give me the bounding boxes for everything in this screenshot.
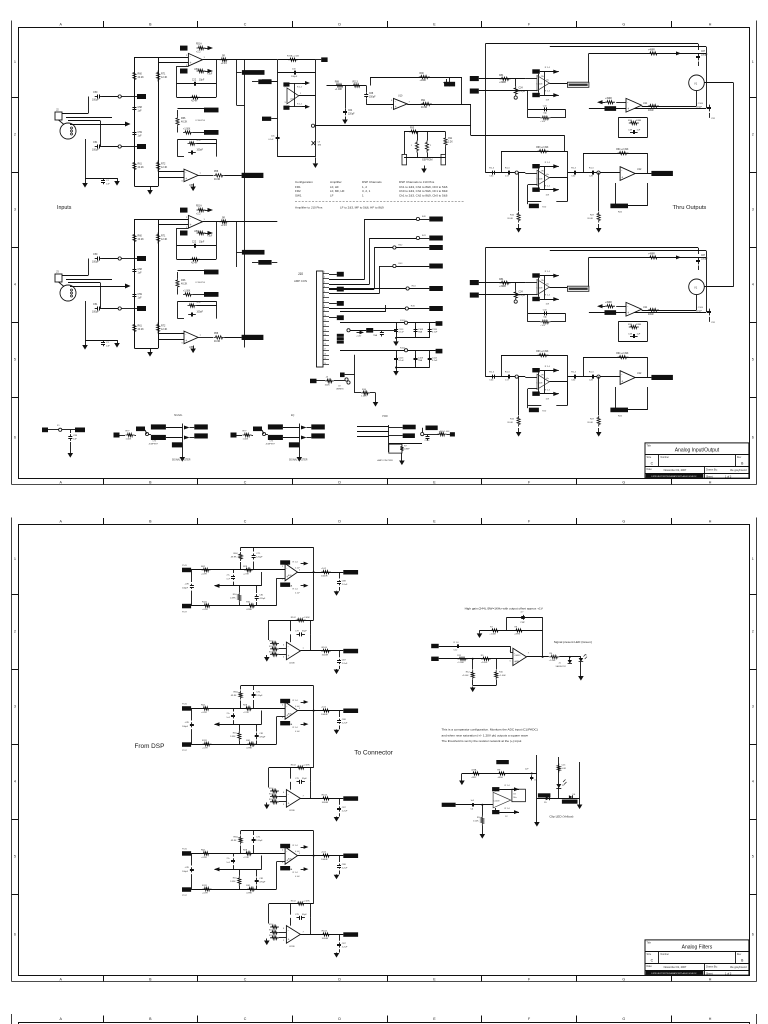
svg-text:-: - bbox=[185, 170, 186, 174]
capacitor Cout bbox=[339, 856, 341, 862]
net label pins bbox=[329, 274, 337, 276]
net label box bbox=[137, 256, 146, 261]
resistor R15 bbox=[517, 212, 520, 223]
svg-text:499R: 499R bbox=[648, 110, 654, 112]
svg-text:P137: P137 bbox=[182, 750, 188, 752]
wire op-amp out bbox=[203, 221, 278, 223]
svg-text:+: + bbox=[288, 802, 290, 806]
output wire bbox=[537, 798, 580, 800]
ground bbox=[85, 180, 87, 183]
feedback loop bbox=[618, 118, 620, 137]
svg-text:+4.99: +4.99 bbox=[201, 857, 207, 859]
svg-text:R94 +2.49K: R94 +2.49K bbox=[616, 149, 629, 151]
svg-text:12.4K: 12.4K bbox=[161, 328, 168, 331]
input stub bbox=[525, 173, 537, 175]
net label bbox=[268, 424, 283, 429]
svg-text:2: 2 bbox=[752, 630, 754, 634]
svg-text:3: 3 bbox=[324, 281, 325, 283]
svg-text:40.2K: 40.2K bbox=[181, 121, 188, 124]
svg-text:+2.00K: +2.00K bbox=[462, 675, 469, 677]
ground bbox=[598, 224, 600, 228]
capacitor C71 bbox=[253, 837, 255, 839]
svg-text:R113: R113 bbox=[269, 929, 273, 931]
svg-text:-: - bbox=[288, 928, 289, 932]
op-amp cell bbox=[537, 374, 549, 389]
net label bbox=[436, 349, 443, 354]
wire stage1 trim bbox=[244, 60, 246, 348]
svg-text:+: + bbox=[185, 339, 187, 343]
resistor R94 bbox=[618, 152, 629, 155]
wire in1 bbox=[191, 708, 285, 710]
svg-text:+4.99: +4.99 bbox=[201, 712, 207, 714]
net label LINEOUT bbox=[242, 173, 264, 178]
svg-text:6: 6 bbox=[14, 933, 16, 937]
resistor RA2 bbox=[244, 707, 253, 710]
svg-text:1.00K: 1.00K bbox=[473, 821, 479, 823]
svg-text:Amplifier to J10 Pins: Amplifier to J10 Pins bbox=[295, 206, 323, 210]
op-amp U8B bbox=[184, 331, 198, 344]
resistor R84 bbox=[500, 281, 511, 284]
ground bbox=[336, 668, 338, 671]
svg-text:0.1uF: 0.1uF bbox=[399, 332, 405, 334]
svg-text:+: + bbox=[190, 223, 192, 227]
svg-text:-: - bbox=[190, 216, 191, 220]
svg-text:C67: C67 bbox=[701, 51, 706, 53]
net label bbox=[532, 368, 540, 372]
op-amp U21A bbox=[285, 702, 297, 719]
ground bbox=[85, 342, 87, 345]
resistor RB1 bbox=[203, 743, 212, 746]
svg-text:R 1.4: R 1.4 bbox=[293, 589, 299, 591]
ground bbox=[446, 79, 448, 82]
op-amp U11 bbox=[626, 302, 642, 316]
jumper loop bbox=[615, 183, 617, 206]
svg-text:+1.00K: +1.00K bbox=[489, 634, 496, 636]
ground bbox=[472, 687, 474, 688]
capacitor C22 bbox=[191, 83, 194, 85]
resistor RA2 bbox=[244, 568, 253, 571]
net label bbox=[311, 433, 325, 438]
wire to ground bbox=[85, 301, 87, 342]
resistor R73A bbox=[471, 772, 481, 775]
svg-text:C22: C22 bbox=[192, 242, 197, 244]
svg-text:SAMSHT-R: SAMSHT-R bbox=[556, 665, 567, 668]
wire vca right bbox=[704, 82, 733, 84]
title block bbox=[645, 443, 749, 478]
ground bbox=[580, 675, 582, 678]
svg-text:U11: U11 bbox=[643, 102, 648, 105]
resistor R87 bbox=[648, 104, 659, 107]
svg-text:+2.2: +2.2 bbox=[196, 52, 201, 54]
op-amp U8A bbox=[188, 53, 202, 66]
svg-text:U21B: U21B bbox=[289, 663, 295, 665]
flag row upper bbox=[540, 370, 559, 372]
svg-text:4: 4 bbox=[752, 780, 754, 784]
wire bbox=[149, 434, 151, 436]
ground bbox=[193, 346, 195, 349]
svg-text:1uF: 1uF bbox=[138, 110, 143, 113]
junction arrow bbox=[125, 284, 131, 289]
jumper loop bbox=[615, 387, 617, 410]
resistor R36 bbox=[629, 121, 639, 124]
svg-text:C113: C113 bbox=[399, 329, 405, 331]
capacitor C7 bbox=[523, 615, 525, 617]
loop left bbox=[528, 90, 537, 92]
svg-text:120pF: 120pF bbox=[256, 557, 263, 559]
capacitor Cout bbox=[339, 711, 341, 717]
svg-text:20.0K: 20.0K bbox=[507, 218, 513, 220]
input stub bbox=[525, 282, 537, 284]
svg-text:200pF: 200pF bbox=[291, 76, 298, 78]
svg-text:+499R: +499R bbox=[648, 49, 655, 51]
feedback rect bbox=[512, 789, 526, 802]
resistor R15 bbox=[517, 416, 520, 427]
svg-text:5: 5 bbox=[14, 855, 16, 859]
capacitor C79 bbox=[191, 853, 193, 865]
svg-text:UNREG: UNREG bbox=[336, 389, 344, 391]
svg-text:3: 3 bbox=[14, 705, 16, 709]
svg-text:+: + bbox=[627, 107, 629, 111]
resistor R36m bbox=[239, 724, 241, 731]
input stub bbox=[525, 377, 537, 379]
svg-text:499R: 499R bbox=[636, 120, 642, 122]
feedback loop bbox=[178, 139, 217, 141]
svg-text:This is a comparator configura: This is a comparator configuration. Moni… bbox=[442, 728, 538, 732]
wire out bbox=[198, 337, 213, 339]
resistor R9 bbox=[497, 772, 507, 775]
svg-text:R51A: R51A bbox=[196, 43, 202, 46]
net label row 1 bbox=[429, 217, 443, 222]
svg-text:C165: C165 bbox=[698, 103, 704, 105]
svg-text:R 1.4: R 1.4 bbox=[293, 845, 299, 847]
net label bbox=[194, 433, 208, 438]
svg-text:R84: R84 bbox=[499, 279, 504, 281]
net label bbox=[450, 432, 455, 436]
svg-text:2.2uF: 2.2uF bbox=[342, 723, 348, 725]
svg-text:Date:: Date: bbox=[647, 468, 653, 471]
junction bbox=[395, 367, 397, 369]
svg-text:R1.4: R1.4 bbox=[489, 167, 494, 169]
svg-text:+1uF: +1uF bbox=[540, 325, 546, 327]
capacitor C51 bbox=[95, 308, 98, 310]
resistor bbox=[126, 433, 135, 436]
capacitor bbox=[415, 326, 417, 329]
svg-text:+499R: +499R bbox=[605, 98, 612, 100]
svg-text:-47K: -47K bbox=[185, 722, 190, 724]
flag row upper bbox=[540, 166, 559, 168]
node row 5 bbox=[406, 287, 409, 290]
node AGND-A bbox=[118, 257, 121, 260]
svg-text:U12: U12 bbox=[637, 372, 642, 375]
svg-text:R1.4: R1.4 bbox=[505, 371, 510, 373]
svg-text:C51: C51 bbox=[93, 303, 98, 306]
svg-text:47K: 47K bbox=[197, 302, 202, 304]
svg-text:-: - bbox=[286, 705, 287, 709]
capacitor bbox=[415, 355, 417, 358]
wire input bundle bbox=[62, 275, 88, 277]
feedback loop top op-amp bbox=[176, 228, 178, 259]
flag row bbox=[499, 789, 519, 791]
svg-text:C113: C113 bbox=[432, 357, 438, 359]
svg-text:100pF: 100pF bbox=[92, 149, 99, 152]
svg-text:Signal present LED (Green): Signal present LED (Green) bbox=[554, 640, 592, 644]
capacitor C96 bbox=[297, 917, 300, 919]
svg-text:R 1.4: R 1.4 bbox=[545, 295, 551, 297]
svg-text:C22: C22 bbox=[192, 80, 197, 82]
svg-text:470pF: 470pF bbox=[259, 737, 266, 739]
svg-text:473A: 473A bbox=[471, 769, 477, 772]
junction bbox=[313, 571, 315, 573]
svg-text:R1.4: R1.4 bbox=[589, 371, 594, 373]
svg-text:2: 2 bbox=[14, 630, 16, 634]
svg-text:P145: P145 bbox=[182, 565, 188, 567]
net label JUMPER bbox=[610, 204, 628, 209]
svg-text:1000R: 1000R bbox=[322, 654, 329, 656]
loop2 bbox=[290, 620, 292, 631]
resistor RA2 bbox=[244, 852, 253, 855]
power flag bbox=[208, 46, 214, 50]
svg-text:+1uF: +1uF bbox=[540, 121, 546, 123]
ground bbox=[70, 450, 72, 453]
svg-text:D: D bbox=[338, 977, 341, 981]
svg-text:33pF: 33pF bbox=[199, 242, 205, 244]
svg-text:R 1.4: R 1.4 bbox=[545, 162, 551, 164]
resistor R52 bbox=[197, 231, 206, 234]
junction bbox=[531, 773, 533, 775]
net label MF bbox=[262, 117, 271, 121]
ground bbox=[375, 399, 377, 402]
resistor R52 bbox=[197, 69, 206, 72]
svg-text:H: H bbox=[709, 977, 712, 981]
svg-text:100pF: 100pF bbox=[92, 261, 99, 264]
svg-text:U12: U12 bbox=[637, 168, 642, 171]
svg-text:120pF: 120pF bbox=[256, 695, 263, 697]
svg-text:C108: C108 bbox=[418, 329, 424, 331]
net label box bbox=[180, 69, 188, 74]
svg-text:47K: 47K bbox=[197, 140, 202, 142]
junction bbox=[472, 658, 474, 660]
flag left bbox=[597, 304, 603, 308]
svg-text:+100K: +100K bbox=[420, 80, 427, 82]
ground bbox=[424, 166, 426, 169]
svg-text:R112: R112 bbox=[269, 788, 273, 790]
wire out stage bbox=[549, 177, 567, 179]
op-amp cell bbox=[537, 280, 549, 295]
svg-text:6: 6 bbox=[752, 933, 754, 937]
power flag bbox=[360, 331, 365, 335]
svg-text:100K: 100K bbox=[325, 384, 331, 386]
svg-text:4: 4 bbox=[14, 283, 16, 287]
svg-text:(1.1)R: (1.1)R bbox=[519, 295, 526, 297]
svg-text:+102: +102 bbox=[321, 852, 327, 854]
svg-text:1uF: 1uF bbox=[637, 334, 641, 336]
svg-text:5: 5 bbox=[14, 358, 16, 362]
node bbox=[145, 432, 148, 435]
resistor R95 bbox=[409, 130, 419, 133]
capacitor C65b bbox=[709, 309, 711, 312]
svg-text:-: - bbox=[286, 850, 287, 854]
op-amp U21A bbox=[285, 564, 297, 581]
svg-text:EEPROM: EEPROM bbox=[422, 159, 432, 162]
net label box bbox=[180, 231, 188, 236]
mid network resistor R66 bbox=[176, 278, 179, 289]
svg-text:9: 9 bbox=[324, 310, 325, 312]
svg-text:9R: 9R bbox=[222, 218, 225, 220]
svg-text:1: 1 bbox=[14, 557, 16, 561]
resistor 47K bbox=[540, 320, 550, 323]
svg-text:+: + bbox=[288, 938, 290, 942]
resistor R105 bbox=[361, 391, 370, 394]
wire mid bbox=[568, 376, 621, 378]
top loop bbox=[241, 685, 314, 687]
svg-text:R1.4: R1.4 bbox=[571, 371, 576, 373]
svg-text:1000R: 1000R bbox=[321, 714, 328, 716]
svg-text:C101E: C101E bbox=[536, 84, 543, 86]
svg-text:6: 6 bbox=[324, 296, 325, 298]
wire box link bbox=[538, 372, 540, 391]
loop2 bbox=[583, 357, 648, 359]
loop left bbox=[528, 184, 537, 186]
capacitor Cout2 bbox=[339, 651, 341, 657]
svg-text:EQ: EQ bbox=[291, 415, 295, 417]
svg-text:4: 4 bbox=[752, 283, 754, 287]
ground bbox=[266, 803, 268, 805]
ground bbox=[579, 803, 581, 805]
svg-text:1uF: 1uF bbox=[138, 135, 143, 138]
svg-text:100pF: 100pF bbox=[197, 312, 204, 314]
svg-text:the greyhound: the greyhound bbox=[730, 965, 747, 969]
capacitor C50 bbox=[95, 96, 98, 98]
resistor RA1 bbox=[202, 707, 211, 710]
net label row 6 bbox=[429, 306, 443, 311]
wire out bbox=[298, 855, 344, 857]
svg-text:-47K: -47K bbox=[185, 867, 190, 869]
VCA circle bbox=[689, 279, 705, 295]
svg-text:6: 6 bbox=[14, 436, 16, 440]
wire vca chain bbox=[733, 83, 735, 287]
node bbox=[262, 432, 265, 435]
svg-text:R 1.4: R 1.4 bbox=[293, 561, 299, 563]
svg-text:1: 1 bbox=[14, 60, 16, 64]
capacitor bbox=[396, 326, 398, 329]
svg-text:1uF: 1uF bbox=[637, 130, 641, 132]
svg-text:10: 10 bbox=[324, 315, 326, 317]
svg-text:P137: P137 bbox=[182, 612, 188, 614]
svg-text:49.9K: 49.9K bbox=[231, 840, 237, 842]
net label bbox=[136, 427, 145, 432]
feedback loop bbox=[507, 617, 543, 619]
svg-text:the greyhound: the greyhound bbox=[730, 468, 747, 472]
svg-text:R111: R111 bbox=[202, 740, 208, 742]
node AGND-A bbox=[118, 95, 121, 98]
resistor R96 bbox=[415, 141, 418, 153]
resistor R10 bbox=[495, 670, 498, 680]
svg-text:H: H bbox=[709, 480, 712, 484]
svg-text:R 1.4: R 1.4 bbox=[454, 642, 460, 644]
net label box bbox=[180, 208, 188, 213]
svg-text:U21B: U21B bbox=[289, 946, 295, 948]
net label out bbox=[343, 709, 358, 714]
capacitor C68m bbox=[292, 72, 295, 74]
svg-text:DSP Channels: DSP Channels bbox=[362, 180, 382, 184]
svg-text:Inputs: Inputs bbox=[57, 205, 72, 211]
svg-text:Configuration: Configuration bbox=[295, 180, 313, 184]
capacitor C71 bbox=[253, 692, 255, 694]
svg-text:R113: R113 bbox=[269, 646, 273, 648]
net label JUMPER bbox=[529, 204, 539, 209]
resistor R71 bbox=[157, 71, 160, 82]
svg-text:220pF: 220pF bbox=[348, 114, 355, 116]
net label LF in bbox=[470, 280, 479, 285]
resistor R7 bbox=[490, 629, 500, 632]
resistor R71A bbox=[288, 58, 298, 61]
svg-text:12.4K: 12.4K bbox=[161, 76, 168, 79]
filter sub-block bbox=[269, 767, 314, 769]
resistor R59 bbox=[220, 220, 229, 223]
op-amp cell clip bbox=[493, 792, 511, 808]
resistor R67 bbox=[183, 131, 193, 134]
wire input bbox=[327, 85, 367, 87]
resistor C15 bbox=[557, 764, 560, 773]
svg-text:2.2K: 2.2K bbox=[448, 142, 453, 144]
svg-text:Ch1 to 2&3, Ch2 to 8&9, Ch0 to: Ch1 to 2&3, Ch2 to 8&9, Ch0 to 5&6 bbox=[399, 193, 448, 197]
net label +5 bbox=[280, 844, 290, 848]
node row 4 bbox=[393, 264, 396, 267]
capacitor C12 bbox=[455, 646, 457, 648]
net label MODE B bbox=[204, 130, 219, 135]
svg-text:4.99K: 4.99K bbox=[246, 893, 252, 895]
resistor J4 bbox=[325, 379, 334, 382]
svg-text:40.2K: 40.2K bbox=[138, 238, 145, 241]
svg-text:+: + bbox=[190, 61, 192, 65]
wire in2 bbox=[479, 294, 528, 296]
svg-text:+1uF: +1uF bbox=[207, 74, 213, 76]
svg-text:A08: A08 bbox=[288, 574, 291, 577]
resistor R9c bbox=[481, 657, 491, 660]
wire in1 bbox=[479, 282, 526, 284]
op-amp cell bbox=[537, 170, 549, 185]
net label MNBDST3 bbox=[562, 800, 578, 804]
mid rail bbox=[215, 724, 262, 726]
svg-text:R 1.4: R 1.4 bbox=[545, 67, 551, 69]
node bbox=[515, 171, 518, 174]
svg-text:R 1.4: R 1.4 bbox=[545, 366, 551, 368]
wire row 1 bbox=[364, 219, 366, 279]
resistor bbox=[400, 445, 403, 453]
resistor stack bbox=[270, 925, 279, 928]
svg-text:C: C bbox=[244, 480, 247, 484]
resistor R68 bbox=[188, 304, 197, 307]
wire pin link bbox=[294, 83, 296, 107]
svg-text:Title: Title bbox=[647, 445, 652, 448]
svg-text:R95: R95 bbox=[410, 128, 415, 130]
svg-text:A08: A08 bbox=[288, 858, 291, 861]
svg-text:C24: C24 bbox=[519, 292, 524, 294]
svg-text:470pF: 470pF bbox=[259, 598, 266, 600]
svg-text:2: 2 bbox=[14, 133, 16, 137]
node AGND-B bbox=[118, 145, 121, 148]
capacitor C34 bbox=[490, 172, 492, 174]
resistor R58 bbox=[214, 174, 225, 177]
svg-text:1: 1 bbox=[324, 272, 325, 274]
net label UNREG in bbox=[310, 379, 317, 384]
wire in bbox=[485, 172, 525, 174]
resistor R91 bbox=[421, 102, 432, 105]
power entry cluster bbox=[42, 428, 48, 433]
capacitor C52 bbox=[103, 341, 105, 343]
unreg cluster bbox=[340, 311, 386, 313]
svg-text:40.2K: 40.2K bbox=[181, 283, 188, 286]
